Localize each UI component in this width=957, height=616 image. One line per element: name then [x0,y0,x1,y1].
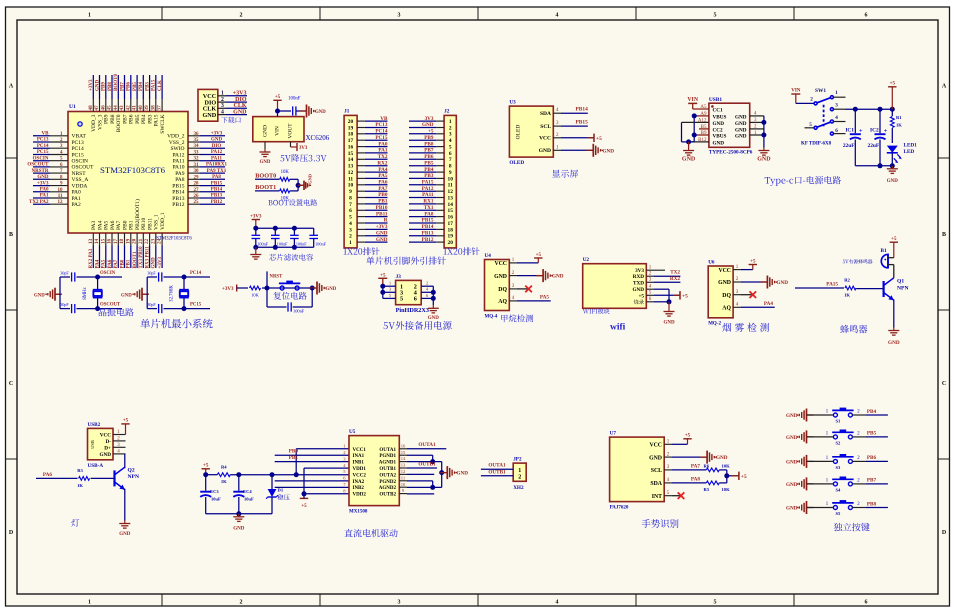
svg-text:100nF: 100nF [257,242,268,247]
svg-text:15: 15 [348,151,354,157]
svg-text:13: 13 [401,463,406,468]
svg-text:VDDA: VDDA [72,183,88,189]
svg-text:SCL: SCL [540,124,551,130]
connector USB2 USB-A [88,422,114,469]
svg-text:19: 19 [125,238,131,244]
U1 top pin 45 PB8 / net PB8 [107,75,116,124]
J2 pin 6 net PB7 [409,148,452,157]
U6 pin 4 AQ [722,303,741,312]
svg-text:7: 7 [349,202,352,208]
svg-text:1: 1 [349,240,352,246]
svg-text:38: 38 [150,105,156,111]
sensor U6 MQ-2 [708,260,733,327]
svg-text:10K: 10K [722,487,731,492]
svg-text:13: 13 [348,164,354,170]
U1 top pin 47 VSS_3 / net GND [94,75,103,130]
resistor R5 10K [704,476,731,492]
svg-text:GND: GND [422,122,434,128]
svg-text:18: 18 [119,238,125,244]
svg-text:PB6: PB6 [129,114,135,124]
U1 left pin 5 OSCIN / net OSCIN [33,156,88,164]
J3 left pin 3 wire [383,287,396,293]
J3 right pin 6 wire [421,293,433,299]
svg-text:J2: J2 [444,109,450,115]
svg-text:PA1: PA1 [40,194,49,199]
svg-text:AGND2: AGND2 [379,486,397,491]
svg-text:PB14: PB14 [172,190,184,196]
svg-text:PB0: PB0 [289,449,299,455]
U5 pin 8 VDD2 [343,488,366,497]
svg-text:PB15: PB15 [211,181,223,186]
svg-text:MQ-4: MQ-4 [485,314,498,319]
svg-text:OLED: OLED [509,160,524,166]
connector download port (SWD) [198,89,226,121]
U1 right pin 32 PA11 / net PA11 [173,156,225,164]
svg-text:PA6: PA6 [110,220,116,230]
svg-text:Q1: Q1 [897,279,904,285]
svg-text:GND: GND [152,257,157,269]
J2 pin 3 net +5 [409,129,452,138]
J3 left pin 1 wire [383,281,396,287]
svg-text:VDD_1: VDD_1 [160,212,166,230]
U5 pin 15 PGND1 [379,450,407,459]
svg-text:+5: +5 [682,293,688,299]
capacitor EC3 10uF [200,475,221,514]
U5 pin 7 INB2 [343,482,364,491]
U1 bottom pin 18 PB0 / net PB0 [119,220,128,268]
svg-text:+5: +5 [203,464,209,469]
svg-text:PA7: PA7 [116,220,122,230]
svg-text:+5: +5 [685,434,691,439]
svg-text:2: 2 [240,600,243,606]
U1 bottom pin 20 PB2(BOOT1) / net BOOT1 [132,199,141,269]
power +5 mq4 [517,253,543,263]
connector J2 1X20 [444,109,480,256]
caption xiazaikou [221,117,240,123]
svg-text:GND: GND [260,160,271,165]
U5 outa2 stub [407,473,434,475]
regulator VOUT to 3V3 power port [291,142,308,151]
svg-text:PB1: PB1 [289,455,299,461]
svg-text:25: 25 [194,200,200,205]
svg-text:9: 9 [449,170,452,176]
svg-text:VCC: VCC [100,433,111,439]
J2 pin 14 net RX1 [409,199,453,208]
svg-text:CLK: CLK [233,103,246,109]
svg-text:10: 10 [448,176,454,182]
svg-text:PC14: PC14 [375,129,388,135]
U1 bottom pin 14 PA4 / net PA4 [94,220,103,268]
svg-text:VSS_A: VSS_A [72,177,89,183]
no-connect u7 INT [672,492,684,499]
net PB4 wire button S1 [852,409,888,415]
U1 bottom pin 13 PA3 / net RX2 PA3 [88,220,97,268]
svg-text:PA2: PA2 [72,202,82,208]
svg-text:D1: D1 [278,488,284,493]
U5 pin 4 VDD1 [343,463,366,472]
svg-text:R3: R3 [77,468,83,473]
USB2 pin 3 D+ [104,443,125,451]
caption chip filter caps [269,254,313,261]
svg-text:PA0: PA0 [40,188,49,193]
svg-text:PB14: PB14 [576,107,589,113]
svg-text:TYPEC-2500-8CP6: TYPEC-2500-8CP6 [709,149,753,155]
U1 left pin 9 VDDA / net +3V3 [33,181,87,189]
U1 top pin 44 BOOT0 / net BOOT0 [113,74,122,133]
svg-text:10: 10 [401,482,406,487]
svg-text:2: 2 [810,97,813,103]
switch SW1 KF TDIP [801,88,846,147]
U7 pin 1 VCC [649,440,672,449]
svg-text:16: 16 [401,443,406,448]
U1 bottom pin 17 PA7 / net PA7 [113,220,122,268]
pushbutton S4 [826,477,861,493]
J1 pin 13 net RX2 [348,160,388,169]
J1 pin 4 net R [349,218,388,227]
U2 pin 2 RXD [633,272,654,281]
svg-text:PGND2: PGND2 [379,480,396,485]
caption MCU pin headers [366,257,445,265]
svg-text:VSS_3: VSS_3 [97,114,103,130]
svg-text:AQ: AQ [722,306,731,312]
svg-text:46: 46 [100,105,106,111]
svg-text:PA15: PA15 [422,180,434,186]
switch output node wire [834,107,895,112]
wire / net GND to download port pin 4 [226,109,247,115]
svg-text:PA0: PA0 [72,190,82,196]
svg-text:5: 5 [714,13,717,19]
svg-text:1: 1 [88,13,91,19]
svg-text:PA0: PA0 [378,141,388,147]
svg-text:PA6: PA6 [378,180,388,186]
svg-text:48: 48 [88,105,94,111]
usb1 A12 wire to rail [682,122,709,141]
svg-text:PB8: PB8 [867,501,877,507]
svg-text:NRST: NRST [270,275,284,280]
svg-text:11: 11 [401,475,406,480]
power VIN sw1 [791,89,814,104]
svg-text:PA12: PA12 [211,150,223,155]
svg-text:PA5: PA5 [378,173,388,179]
U1 left pin 3 PC14 / net PC14 [33,144,84,152]
caption display [552,170,578,178]
svg-text:14: 14 [94,238,100,244]
J3 left pin 5 wire [383,293,396,299]
svg-text:RXD: RXD [633,274,644,280]
svg-text:14: 14 [348,157,354,163]
net PB15 wire [561,120,588,127]
svg-text:43: 43 [119,105,125,111]
svg-text:VBAT: VBAT [72,134,87,140]
transistor Q2 NPN [115,467,140,520]
U2 pin 5 +5 [638,291,654,300]
svg-text:USB2: USB2 [88,422,101,428]
U5 pin 2 INA1 [343,450,364,459]
svg-text:U6: U6 [708,260,715,266]
svg-text:INA2: INA2 [353,480,365,485]
svg-text:+5: +5 [638,293,644,299]
svg-text:GND: GND [786,413,798,419]
svg-text:+EC4: +EC4 [241,489,253,494]
svg-text:PAJ7620: PAJ7620 [610,505,629,510]
caption gesture recognition [642,519,679,528]
svg-text:5: 5 [449,145,452,151]
U1 right pin 36 VDD_2 / net +3V3 [167,132,225,140]
svg-text:PA4: PA4 [97,220,103,230]
pushbutton S1 [826,408,861,424]
svg-text:23: 23 [150,238,156,244]
ground usb1 right [757,148,771,163]
power +5 motor [202,464,210,475]
svg-text:PB9: PB9 [104,114,110,124]
capacitor 30pF pc15 [147,302,210,313]
wire / net CLK to download port pin 3 [226,103,247,109]
svg-text:36: 36 [194,132,200,137]
svg-text:PA5: PA5 [540,294,550,300]
svg-text:PB7: PB7 [122,114,128,124]
capacitor 100nF reset parallel [267,288,312,314]
svg-text:PA1: PA1 [378,148,388,154]
U1 right pin 27 PB14 / net PB14 [172,188,225,196]
svg-text:OUTB1: OUTB1 [488,469,506,475]
U1 bottom pin 22 PB11 / net RX3 PB11 [144,218,153,269]
usb1 B12 wire and gnd rail [682,139,709,144]
svg-text:B: B [9,232,13,238]
caption wifi [610,323,626,333]
svg-text:GND: GND [786,506,798,512]
svg-text:VDD1: VDD1 [353,467,367,472]
svg-text:PA8: PA8 [175,177,185,183]
svg-text:GND: GND [777,280,789,286]
svg-text:VOUT: VOUT [288,123,294,139]
svg-text:+5: +5 [428,129,434,135]
U1 right pin 30 PA9 / net PA9 TX1 [175,169,226,177]
svg-text:11: 11 [448,183,453,189]
svg-text:PA4: PA4 [95,259,100,268]
svg-text:PB9: PB9 [102,82,107,91]
svg-text:15: 15 [448,208,454,214]
svg-text:PGND1: PGND1 [379,454,396,459]
pushbutton S3 [826,454,861,470]
svg-text:PA11: PA11 [422,192,434,198]
ground lamp [119,521,131,538]
caption 5V buck 3.3V [280,154,326,162]
svg-text:22: 22 [144,238,150,244]
U6 pin 1 VCC [718,265,741,274]
svg-text:PB14: PB14 [422,224,434,230]
U5 pin 16 OUTA1 [379,443,407,452]
regulator U XC6206 [253,111,330,142]
svg-text:4: 4 [449,138,452,144]
capacitor IC2 22uF [868,109,888,166]
node VIN junction [275,109,291,114]
svg-text:GND: GND [233,527,245,532]
svg-text:PB6: PB6 [127,82,132,91]
svg-text:35: 35 [194,138,200,143]
svg-text:USB1: USB1 [709,97,722,103]
usb1 A9 wire to rail [692,113,709,141]
svg-text:PB4: PB4 [141,114,147,124]
svg-text:10uF: 10uF [244,497,254,502]
U7 pin 4 SDA [650,478,672,487]
svg-text:5: 5 [809,122,812,128]
svg-text:1: 1 [221,91,224,97]
svg-text:NPN: NPN [897,286,909,292]
capacitor 100nF filter 2 [271,228,288,247]
J2 pin 4 net PB9 [409,135,452,144]
wire / net +3V3 to download port pin 1 [226,91,247,97]
power +5 usb2 [121,419,129,435]
wifi pin1 stub [654,269,665,271]
svg-text:PB5: PB5 [424,160,434,166]
J3 right pin 2 wire [421,281,433,287]
svg-text:100nF: 100nF [288,97,301,102]
usb1 right gnd pins [735,112,766,148]
svg-text:+5: +5 [596,136,602,142]
svg-text:DQ: DQ [722,293,731,299]
capacitor 100nF filter 1 [252,228,269,247]
svg-text:PA9 TX1: PA9 TX1 [207,169,227,174]
U7 pin 2 GND [649,452,672,461]
svg-text:VBUS: VBUS [713,114,727,120]
J1 pin 17 net PC15 [348,135,388,144]
svg-text:D+: D+ [104,445,111,451]
svg-text:XH2: XH2 [513,485,524,491]
svg-text:30: 30 [194,169,200,174]
svg-text:30pF: 30pF [147,302,156,307]
power +5 oled [561,134,602,142]
svg-text:PA12: PA12 [422,186,434,192]
svg-text:OSCIN: OSCIN [72,159,89,165]
wire boot0 to junction [290,179,298,185]
svg-text:VB: VB [380,116,388,122]
svg-text:OUTB2: OUTB2 [379,493,396,498]
svg-text:100nF: 100nF [296,242,307,247]
svg-text:10uF: 10uF [211,497,221,502]
svg-text:20: 20 [132,238,138,244]
diode D1 zener [266,475,289,514]
svg-text:PB3: PB3 [145,82,150,91]
svg-text:PC15: PC15 [375,135,388,141]
svg-text:VCC2: VCC2 [353,473,367,478]
svg-text:28: 28 [194,182,200,187]
svg-text:45: 45 [107,105,113,111]
svg-text:RX1: RX1 [423,199,433,205]
svg-text:VB: VB [42,132,50,137]
connector JP2 XH2 [513,457,526,491]
svg-text:12: 12 [58,200,64,205]
svg-text:R5: R5 [704,487,710,492]
crystal1 left rail [59,277,61,309]
J2 pin 5 net PB8 [409,141,452,150]
J1 pin 7 net PB1 [349,199,388,208]
svg-text:31: 31 [194,163,200,168]
U1 right pin 25 PB12 / net PB12 [172,200,225,208]
svg-text:CC2: CC2 [713,127,723,133]
svg-text:PB11: PB11 [147,218,153,230]
net OUTA1 wire from U5 [407,442,446,449]
svg-text:GND: GND [888,340,900,346]
svg-text:13: 13 [88,238,94,244]
pushbutton S5 [826,500,861,516]
transistor Q1 NPN [884,265,909,328]
svg-text:LED1: LED1 [904,142,918,148]
U1 right pin 31 PA10 / net PA10RX1 [172,163,227,171]
svg-text:1: 1 [88,600,91,606]
net PA6 wire to base resistor [36,472,78,479]
svg-text:10K: 10K [281,170,290,175]
U6 pin 2 GND [718,277,741,286]
U1 bottom pin 19 PB1 / net PB1 [125,220,134,268]
ground button S5 [786,501,834,514]
net PA4 wire mq2 AQ [741,301,775,308]
svg-text:19: 19 [448,234,454,240]
svg-text:PB5: PB5 [133,82,138,91]
buzzer B1 [843,248,894,268]
svg-text:6: 6 [414,296,417,303]
J1 pin 11 net PA5 [348,173,388,182]
svg-text:SDA: SDA [650,481,662,487]
svg-text:4: 4 [556,13,559,19]
wifi flash pin wire and ground [654,299,675,325]
regulator GND pin to ground [260,142,271,165]
svg-text:11: 11 [58,194,63,199]
svg-text:1: 1 [835,90,838,96]
U5 pin 5 VCC2 [343,469,366,478]
mcu U1 STM32F103C8T6 [68,104,192,242]
svg-text:S1: S1 [836,419,842,424]
svg-text:GND: GND [457,471,469,477]
svg-text:PB10: PB10 [376,205,388,211]
svg-text:22uF: 22uF [843,143,855,149]
svg-text:+3V3: +3V3 [233,91,247,97]
svg-text:3: 3 [398,13,401,19]
svg-text:+5: +5 [301,504,307,509]
svg-text:44: 44 [113,105,119,111]
svg-text:100nF: 100nF [293,309,305,314]
svg-text:+5: +5 [123,419,129,424]
svg-text:OLED: OLED [516,125,522,140]
USB1 left pin B5 CC2 [701,125,723,133]
U1 top pin 42 PB6 / net PB6 [125,75,134,124]
svg-text:PB15: PB15 [576,120,589,126]
svg-text:10: 10 [58,188,64,193]
driver U5 MX1508 [349,429,399,514]
svg-text:OSCOUT: OSCOUT [27,163,49,168]
svg-text:GND: GND [713,140,725,146]
svg-text:RX3 PB11: RX3 PB11 [145,246,150,269]
svg-text:INA1: INA1 [353,454,365,459]
module U2 wifi [583,257,647,314]
net PA15 wire to base resistor [795,281,844,288]
U1 left pin 1 VBAT / net VB [33,132,87,140]
svg-text:VSS_2: VSS_2 [169,140,185,146]
svg-text:1: 1 [449,119,452,125]
svg-text:100nF: 100nF [277,242,288,247]
USB1 left pin A12 GND [698,118,724,126]
wire reset node NRST [262,271,312,290]
svg-text:MX1508: MX1508 [349,509,368,514]
wire to U5 pin1 [296,449,349,475]
power +3V3 reset [222,285,248,293]
caption 5V external backup power [383,321,451,330]
caption smoke detection [722,323,769,332]
svg-text:PA5: PA5 [102,259,107,268]
J2 pin 8 net PB5 [409,160,452,169]
resistor R3 1K [77,468,114,488]
svg-text:GND: GND [735,127,747,133]
power VIN usb1 [687,97,709,109]
